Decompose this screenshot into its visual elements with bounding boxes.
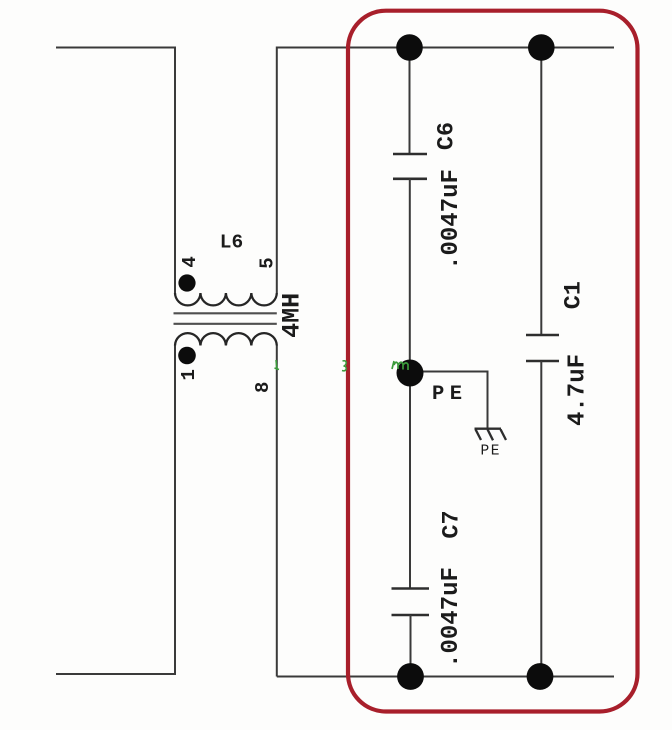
wire bottom-right segment (277, 676, 614, 678)
junction node bottom-left (C7/bottom rail) (397, 663, 424, 690)
capacitor C7 bottom plate (392, 614, 430, 617)
wire top-right segment (277, 47, 614, 49)
capacitor C6 bottom lead (409, 179, 411, 373)
capacitor C7 top lead (409, 373, 411, 589)
capacitor C6 bottom plate (393, 178, 427, 181)
svg-text:C6: C6 (434, 122, 461, 150)
green watermark tick on right leg (275, 360, 280, 370)
svg-text:4: 4 (179, 256, 201, 267)
svg-text:1: 1 (178, 369, 200, 380)
capacitor C1 top plate (526, 334, 559, 337)
svg-text:4.7uF: 4.7uF (565, 354, 592, 426)
wire top-left segment (56, 47, 175, 49)
red highlight box (348, 11, 638, 712)
capacitor C7 top plate (392, 587, 430, 590)
wire L6 right leg upper (276, 47, 278, 294)
junction node bottom-right (C1/bottom rail) (527, 663, 554, 690)
capacitor C7 bottom lead (410, 615, 412, 677)
green watermark squiggle (392, 361, 408, 370)
inductor L6 top winding (pins 4-5) (175, 293, 277, 305)
earth ground symbol (475, 429, 507, 441)
svg-text:C1: C1 (561, 281, 588, 309)
svg-text:4MH: 4MH (278, 293, 307, 338)
svg-text:5: 5 (257, 257, 279, 268)
svg-text:.0047uF: .0047uF (438, 169, 465, 270)
L6 core line 1 (174, 312, 277, 314)
wire bottom-left segment (56, 673, 176, 675)
capacitor C6 top lead (409, 48, 411, 155)
svg-text:C7: C7 (439, 510, 466, 538)
capacitor C6 top plate (393, 153, 427, 156)
svg-text:PE: PE (432, 383, 468, 406)
svg-text:.0047uF: .0047uF (438, 567, 465, 668)
junction node top-right (C1/top rail) (528, 34, 555, 61)
svg-text:PE: PE (481, 444, 501, 460)
junction node top-left (C6/top rail) (396, 34, 423, 61)
L6 polarity dot pin 4 (178, 274, 195, 291)
wire L6 right leg lower (276, 346, 278, 677)
green watermark digit (342, 361, 346, 371)
capacitor C1 bottom lead (540, 361, 542, 677)
node PE junction wire to ground (410, 372, 488, 429)
capacitor C1 bottom plate (526, 360, 559, 363)
inductor L6 bottom winding (pins 1-8) (175, 333, 277, 345)
L6 core line 2 (174, 323, 277, 325)
svg-text:L6: L6 (220, 231, 243, 253)
wire L6 left leg lower (174, 346, 176, 675)
L6 polarity dot pin 1 (178, 347, 196, 365)
capacitor C1 top lead (540, 48, 542, 336)
wire L6 left leg upper (174, 47, 176, 294)
junction node middle (C6/C7/PE) (397, 360, 424, 387)
svg-text:8: 8 (252, 382, 274, 393)
